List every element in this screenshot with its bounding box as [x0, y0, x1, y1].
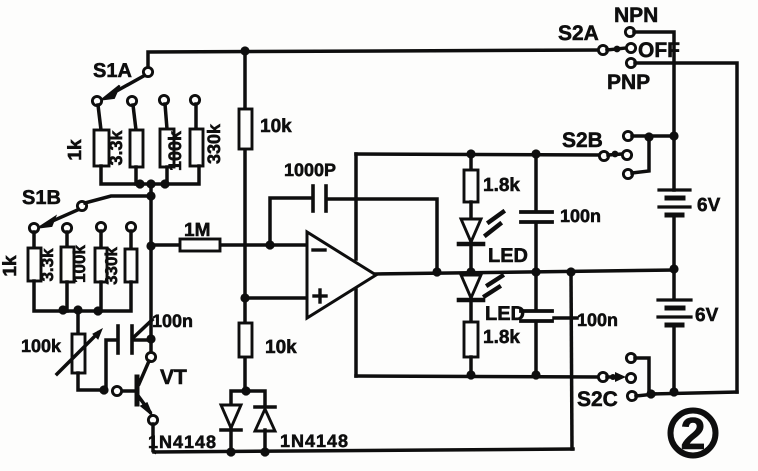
- wire output to bottom diode rail: [571, 272, 572, 449]
- node bottom rail 1.8k: [466, 370, 475, 379]
- VT base terminal: [112, 386, 121, 395]
- node output-LED junction: [466, 267, 475, 276]
- wire collector lead: [139, 361, 149, 384]
- LED2: [459, 275, 483, 322]
- svg-text:100n: 100n: [560, 206, 601, 226]
- S2C throw bottom: [627, 391, 636, 400]
- wire S1A contact4 to R 330k: [194, 104, 198, 129]
- wire 1.8k to LED1: [469, 202, 473, 219]
- capacitor 1000p plate 2: [324, 186, 328, 211]
- svg-text:1k: 1k: [65, 139, 86, 161]
- svg-text:6V: 6V: [695, 305, 719, 326]
- switch S2B blade dot: [612, 151, 619, 158]
- node output-100n junction: [531, 267, 540, 276]
- LED1 light arrows: [486, 212, 503, 235]
- wire S1B bank bottom bus: [34, 281, 131, 311]
- wire bottom right rail: [651, 392, 737, 394]
- switch S2C pole: [598, 372, 607, 381]
- VT collector terminal: [146, 352, 155, 361]
- switch S2A blade dot: [614, 46, 621, 53]
- node S1A bus a: [135, 179, 144, 188]
- wire base lead: [121, 389, 137, 393]
- svg-text:1.8k: 1.8k: [483, 327, 520, 348]
- VT emitter terminal: [148, 415, 157, 424]
- wire 10k tap vertical (top rail to +input): [243, 51, 247, 298]
- node S1B bus c: [93, 306, 102, 315]
- S1A contact 1: [92, 96, 101, 105]
- node top rail to 10k tap: [240, 46, 249, 55]
- node diode top junction: [241, 386, 250, 395]
- svg-text:PNP: PNP: [607, 71, 650, 94]
- resistor 10k (bottom): [239, 323, 252, 357]
- S1A contact 4: [190, 95, 199, 104]
- resistor 330k (S1B): [125, 249, 137, 282]
- wire LED chain bottom rail: [356, 376, 600, 377]
- node top rail 1.8k: [466, 149, 475, 158]
- svg-text:LED: LED: [488, 245, 528, 267]
- svg-text:1.8k: 1.8k: [483, 175, 520, 196]
- resistor 3.3k (S1B): [61, 247, 74, 282]
- svg-text:S2C: S2C: [577, 388, 618, 411]
- resistor 1M: [180, 239, 220, 251]
- transistor VT base bar: [135, 377, 140, 404]
- node feedback-output junction: [432, 267, 441, 276]
- S2B throw mid: [622, 150, 631, 159]
- S1B contact 1: [29, 223, 38, 232]
- node output to S2C link: [566, 267, 575, 276]
- switch S2A pole: [598, 45, 607, 54]
- S2A throw OFF: [626, 43, 635, 52]
- S1B contact 3: [96, 222, 105, 231]
- wire op-amp output rail: [376, 270, 674, 274]
- wire 100k bottom stub: [165, 167, 169, 184]
- S1B contact 2: [62, 223, 71, 232]
- op-amp U1: [307, 232, 376, 318]
- wire S1B 100k bottom stub: [99, 282, 103, 311]
- switch S2B blade: [608, 154, 622, 155]
- wire 1M input line: [151, 243, 310, 247]
- potentiometer 100k body: [72, 334, 85, 373]
- wire S1A contact2 to R 3.3k: [133, 105, 136, 130]
- svg-text:3.3k: 3.3k: [38, 248, 57, 282]
- resistor 10k (top): [239, 109, 252, 149]
- node S2B battery line: [669, 131, 678, 140]
- capacitor 100n (lower): [521, 272, 552, 376]
- S2B throw bottom: [623, 169, 632, 178]
- svg-text:1000P: 1000P: [284, 160, 336, 180]
- svg-text:VT: VT: [160, 366, 187, 389]
- S1A contact 3: [159, 95, 168, 104]
- svg-text:3.3k: 3.3k: [106, 130, 126, 166]
- wire loop left vertical upper: [354, 154, 358, 259]
- resistor 100k (S1B): [95, 248, 107, 282]
- capacitor 100n (upper): [521, 154, 552, 272]
- S1A contact 2: [127, 96, 136, 105]
- svg-text:1M: 1M: [184, 220, 210, 241]
- wire emitter to bottom rail: [153, 424, 155, 452]
- wire 3.3k bottom stub: [134, 167, 138, 184]
- svg-text:2: 2: [680, 408, 705, 459]
- svg-text:NPN: NPN: [614, 4, 658, 27]
- S2C throw mid: [626, 373, 635, 382]
- resistor 330k (S1A): [190, 129, 203, 166]
- svg-text:330k: 330k: [102, 247, 121, 285]
- resistor 1.8k (top): [464, 170, 478, 202]
- node +input junction: [240, 293, 249, 302]
- battery B2 6V: [658, 300, 691, 325]
- LED2 light arrows: [485, 276, 502, 296]
- wire S1B contact1 stub: [32, 232, 36, 248]
- node battery centre tap: [669, 264, 678, 273]
- wire PNP throw to right rail: [635, 63, 737, 392]
- resistor 1.8k (bottom): [464, 322, 478, 357]
- wire main left vertical (S1A bus to VT collector node): [149, 184, 153, 350]
- svg-text:S2A: S2A: [558, 22, 599, 45]
- svg-text:10k: 10k: [265, 337, 297, 358]
- svg-text:100k: 100k: [70, 245, 89, 283]
- LED1: [459, 219, 483, 272]
- label 100n (lower) with leader: [554, 310, 618, 330]
- wire S2B bottom throw link: [632, 138, 649, 173]
- S2B throw top: [623, 131, 632, 140]
- diode D1 1N4148 (cathode down): [221, 405, 241, 452]
- node collector-cap junction: [146, 334, 155, 343]
- node inverting input / cap branch: [265, 240, 274, 249]
- S2C throw top: [626, 353, 635, 362]
- wire S1A bank bottom bus: [101, 166, 199, 184]
- wire battery bottom to bottom-right rail: [672, 325, 676, 392]
- resistor 1k (S1A): [94, 130, 109, 166]
- svg-text:LED: LED: [485, 303, 525, 325]
- node S2B link: [644, 132, 653, 141]
- S2A throw NPN: [625, 27, 634, 36]
- wire S2B top throw to battery line: [632, 134, 674, 138]
- switch S2C blade: [607, 372, 626, 382]
- wire S2C top throw link: [635, 358, 649, 393]
- svg-text:S1A: S1A: [93, 60, 132, 82]
- wire S1B bus to potentiometer: [76, 311, 80, 334]
- svg-text:S1B: S1B: [22, 187, 61, 209]
- wire S1B 3.3k bottom stub: [65, 282, 69, 311]
- wire S1B pole to main vertical: [85, 196, 151, 203]
- node D1 bottom: [226, 447, 235, 456]
- wire 1.8k bottom stub: [469, 357, 473, 376]
- switch S2C blade dot: [610, 374, 616, 380]
- wire top supply rail: [148, 50, 603, 67]
- node battery bottom: [669, 387, 678, 396]
- switch S1A pole: [143, 67, 152, 76]
- svg-text:100n: 100n: [152, 311, 193, 331]
- diode D2 1N4148 (cathode up): [255, 407, 275, 452]
- wire 10k bottom vertical: [243, 298, 247, 391]
- node S2C link bottom: [646, 389, 655, 398]
- svg-text:1k: 1k: [0, 255, 21, 277]
- resistor 1k (S1B): [28, 248, 41, 281]
- wire base node up to capacitor 100n: [106, 340, 115, 390]
- node S1A bus c: [160, 179, 169, 188]
- wire LED chain top rail: [356, 154, 600, 155]
- svg-text:330k: 330k: [204, 123, 224, 164]
- switch S1A blade: [102, 76, 145, 100]
- node 1M left junction: [146, 241, 155, 250]
- node top rail 100n: [531, 149, 540, 158]
- switch S2B pole: [599, 151, 608, 160]
- svg-text:100k: 100k: [21, 336, 62, 356]
- wire 10k bottom to diode pair top bus: [231, 391, 265, 405]
- resistor 3.3k (S1A): [130, 130, 143, 167]
- label 100n (left) with leader: [134, 311, 193, 337]
- node bottom rail 100n: [531, 370, 540, 379]
- svg-text:S2B: S2B: [562, 129, 603, 152]
- svg-text:1N4148: 1N4148: [280, 431, 349, 451]
- wire S1A contact3 to R 100k: [165, 104, 167, 129]
- wire capacitor right to collector node: [134, 338, 151, 342]
- wire 1.8k top stub: [469, 154, 473, 170]
- wire S1B contact2 stub: [65, 232, 69, 247]
- node S1B bus a: [58, 305, 67, 314]
- wire battery mid link: [672, 215, 676, 299]
- wire cap 1000p right branch to output: [328, 199, 437, 272]
- wire NPN throw to battery line: [634, 32, 674, 190]
- switch S1B blade: [39, 210, 79, 228]
- wire +input: [245, 296, 310, 300]
- wire loop left vertical lower: [354, 290, 358, 376]
- node base junction: [99, 385, 108, 394]
- wire bottom rail: [154, 449, 573, 452]
- battery B1 6V: [659, 190, 690, 215]
- node S1B pole junction: [146, 191, 155, 200]
- figure number circled 2: [671, 408, 716, 459]
- resistor 100k (S1A): [160, 129, 174, 167]
- wire emitter lead with arrow: [139, 397, 152, 415]
- node S1B bus b: [73, 305, 82, 314]
- svg-text:6V: 6V: [697, 195, 721, 216]
- svg-text:10k: 10k: [260, 116, 292, 137]
- S1B contact 4: [126, 222, 135, 231]
- svg-text:100k: 100k: [165, 130, 185, 171]
- switch S1B pole: [77, 201, 86, 210]
- capacitor 1000p plate 1: [311, 186, 315, 211]
- wire S1A contact1 to R 1k: [98, 105, 101, 130]
- wire S1B contact4 stub: [129, 231, 133, 249]
- node S1A bus b: [146, 179, 155, 188]
- capacitor 100n (left) plate 2: [130, 326, 134, 353]
- svg-text:1N4148: 1N4148: [148, 432, 217, 452]
- switch S2A blade: [607, 48, 626, 50]
- svg-text:100n: 100n: [577, 310, 618, 330]
- capacitor 100n (left) plate 1: [116, 326, 120, 353]
- wire pot bottom to base node: [78, 373, 104, 390]
- wire cap 1000p left branch: [270, 198, 310, 245]
- node D2 bottom: [260, 447, 269, 456]
- potentiometer 100k arrow: [57, 329, 102, 374]
- wire S2C bottom throw to rail: [636, 394, 655, 396]
- wire S1B contact3 stub: [99, 231, 103, 248]
- S2A throw PNP: [626, 58, 635, 67]
